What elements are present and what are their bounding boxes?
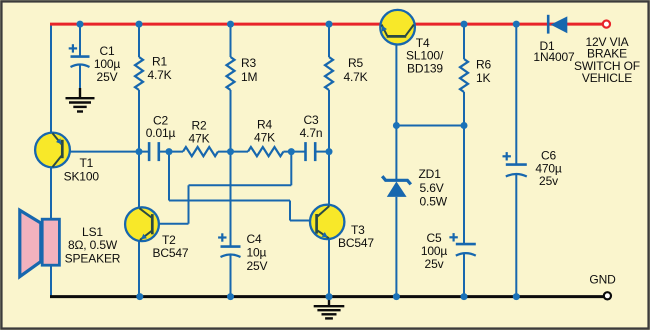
svg-text:GND: GND [589, 273, 616, 287]
svg-text:SK100: SK100 [64, 169, 100, 183]
svg-text:8Ω, 0.5W: 8Ω, 0.5W [68, 238, 118, 252]
svg-text:R3: R3 [241, 56, 257, 70]
svg-text:ZD1: ZD1 [419, 167, 442, 181]
svg-text:SPEAKER: SPEAKER [65, 252, 121, 266]
svg-text:25V: 25V [247, 259, 268, 273]
svg-text:T3: T3 [351, 223, 365, 237]
svg-text:47K: 47K [189, 132, 210, 146]
svg-text:4.7K: 4.7K [147, 68, 171, 82]
svg-text:4.7K: 4.7K [343, 70, 367, 84]
svg-text:R4: R4 [257, 118, 273, 132]
svg-text:1N4007: 1N4007 [533, 50, 575, 64]
svg-text:10µ: 10µ [247, 246, 267, 260]
svg-text:5.6V: 5.6V [420, 181, 444, 195]
svg-text:25v: 25v [539, 174, 558, 188]
svg-text:25v: 25v [425, 257, 444, 271]
svg-text:0.01µ: 0.01µ [146, 126, 176, 140]
svg-text:1M: 1M [241, 70, 258, 84]
svg-text:C3: C3 [303, 113, 319, 127]
svg-text:47K: 47K [254, 131, 275, 145]
svg-text:LS1: LS1 [82, 225, 103, 239]
svg-text:R5: R5 [348, 56, 364, 70]
svg-text:C1: C1 [99, 44, 115, 58]
svg-text:0.5W: 0.5W [420, 194, 448, 208]
svg-text:4.7n: 4.7n [300, 126, 323, 140]
svg-text:T1: T1 [80, 156, 94, 170]
svg-text:BD139: BD139 [407, 62, 443, 76]
svg-text:1K: 1K [476, 71, 491, 85]
svg-text:C5: C5 [426, 231, 442, 245]
svg-text:SL100/: SL100/ [406, 49, 444, 63]
svg-text:VEHICLE: VEHICLE [582, 71, 632, 85]
svg-text:25V: 25V [97, 70, 118, 84]
svg-text:BC547: BC547 [153, 246, 189, 260]
svg-text:100µ: 100µ [94, 57, 121, 71]
svg-text:C4: C4 [247, 232, 263, 246]
svg-text:100µ: 100µ [421, 244, 448, 258]
svg-text:R2: R2 [191, 119, 207, 133]
svg-text:R1: R1 [152, 54, 168, 68]
svg-text:R6: R6 [476, 57, 492, 71]
svg-text:BC547: BC547 [338, 236, 374, 250]
